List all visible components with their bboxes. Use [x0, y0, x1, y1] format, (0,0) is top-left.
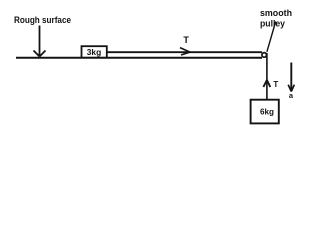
svg-text:Rough surface: Rough surface	[14, 15, 71, 26]
svg-text:a: a	[289, 91, 294, 100]
svg-text:smooth: smooth	[260, 8, 292, 19]
svg-text:T: T	[273, 80, 278, 89]
svg-text:pulley: pulley	[260, 19, 286, 30]
wire horizontal rope	[107, 51, 262, 53]
pointer line from label to pulley	[267, 22, 276, 52]
acceleration arrow a	[288, 63, 294, 101]
svg-text:T: T	[183, 35, 189, 45]
arrowhead T direction on rope	[180, 48, 190, 55]
arrow pointing to rough surface	[34, 26, 46, 57]
svg-text:6kg: 6kg	[260, 107, 274, 117]
wire vertical rope	[266, 53, 268, 100]
block 3kg	[82, 46, 107, 57]
svg-text:3kg: 3kg	[87, 47, 102, 57]
pulley circle	[262, 53, 267, 58]
label "Rough surface"	[14, 15, 71, 26]
surface line	[16, 57, 262, 59]
arrowhead T up on vertical rope	[263, 80, 270, 87]
label "smooth pulley"	[260, 8, 292, 30]
block 6kg	[251, 100, 279, 124]
